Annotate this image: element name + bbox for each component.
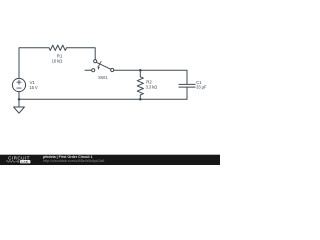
wire V1 bottom to ground node: [18, 92, 20, 100]
switch SW1 lever: [97, 62, 111, 69]
CircuitLab logo LAB box: [20, 160, 30, 163]
svg-text:http://circuitlab.com/c/85e4r5: http://circuitlab.com/c/85e4r5u6pk2a8: [43, 159, 104, 163]
wire switch common to node A: [114, 69, 141, 71]
voltage source V1: [12, 78, 25, 91]
CircuitLab logo capacitor: [15, 160, 19, 163]
V1 plus sign: [17, 80, 21, 88]
capacitor C1 bottom plate: [179, 86, 195, 88]
bottom rail wire: [19, 98, 187, 100]
V1 minus sign: [17, 87, 21, 89]
node B junction dot (R2 bottom): [139, 98, 142, 101]
svg-text:SW1: SW1: [98, 75, 108, 80]
wire R1 to switch top terminal: [67, 48, 96, 60]
capacitor C1 top plate: [179, 83, 195, 85]
ground stub: [18, 99, 20, 107]
svg-text:15 V: 15 V: [29, 85, 38, 90]
wire node A to C1 top: [140, 70, 187, 84]
svg-text:3.3 kΩ: 3.3 kΩ: [146, 84, 158, 89]
resistor R1: [49, 45, 67, 50]
CircuitLab logo resistor squiggle: [6, 160, 15, 162]
switch SW1 common terminal: [111, 68, 114, 71]
switch SW1 toggle arrow: [97, 61, 101, 70]
wire V1 top to top rail: [19, 48, 49, 79]
switch SW1 left throw terminal: [92, 69, 95, 72]
switch SW1 left throw stub: [85, 69, 92, 71]
resistor R2: [137, 77, 143, 95]
svg-text:10 kΩ: 10 kΩ: [52, 58, 63, 63]
wire C1 bottom to bottom rail: [186, 87, 188, 99]
wire node A into R2: [139, 70, 141, 77]
ground junction dot: [18, 98, 21, 101]
switch SW1 top throw terminal: [94, 60, 97, 63]
svg-text:33 µF: 33 µF: [196, 84, 207, 89]
ground symbol: [14, 107, 25, 113]
svg-text:LAB: LAB: [21, 160, 28, 164]
node A junction dot: [139, 69, 142, 72]
footer watermark bar: [0, 155, 220, 165]
wire R2 bottom to bottom rail: [139, 95, 141, 99]
